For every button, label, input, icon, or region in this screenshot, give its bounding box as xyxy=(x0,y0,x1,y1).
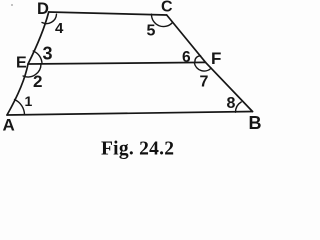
speck top-left xyxy=(11,4,13,6)
svg-text:5: 5 xyxy=(147,23,156,40)
svg-text:A: A xyxy=(3,116,15,135)
svg-text:1: 1 xyxy=(25,93,33,109)
angle arc 5 at C xyxy=(151,14,172,26)
svg-text:F: F xyxy=(211,49,221,68)
angle arc 7 at F xyxy=(194,63,211,71)
svg-text:8: 8 xyxy=(227,95,236,112)
angle arc 6 at F xyxy=(195,56,201,62)
wire side AB xyxy=(7,112,253,116)
svg-text:2: 2 xyxy=(33,72,42,91)
wire transversal EF xyxy=(28,62,206,64)
angle arc 2 at E xyxy=(23,64,41,77)
svg-text:D: D xyxy=(37,0,49,18)
svg-text:6: 6 xyxy=(182,49,191,66)
wire side AD (through E) xyxy=(7,12,49,115)
svg-text:4: 4 xyxy=(55,20,64,37)
angle arc 1 at A xyxy=(15,100,25,115)
angle arc 3 at E xyxy=(33,51,42,64)
svg-text:Fig. 24.2: Fig. 24.2 xyxy=(101,139,174,160)
svg-text:7: 7 xyxy=(200,74,209,91)
svg-text:E: E xyxy=(16,55,27,72)
wire side DC xyxy=(49,12,167,15)
svg-text:3: 3 xyxy=(43,44,53,64)
angle arc 4 at D xyxy=(42,14,57,23)
svg-text:B: B xyxy=(249,113,262,133)
wire side BC (through F) xyxy=(167,15,253,112)
angle arc 8 at B xyxy=(236,102,242,112)
svg-text:C: C xyxy=(161,0,173,16)
